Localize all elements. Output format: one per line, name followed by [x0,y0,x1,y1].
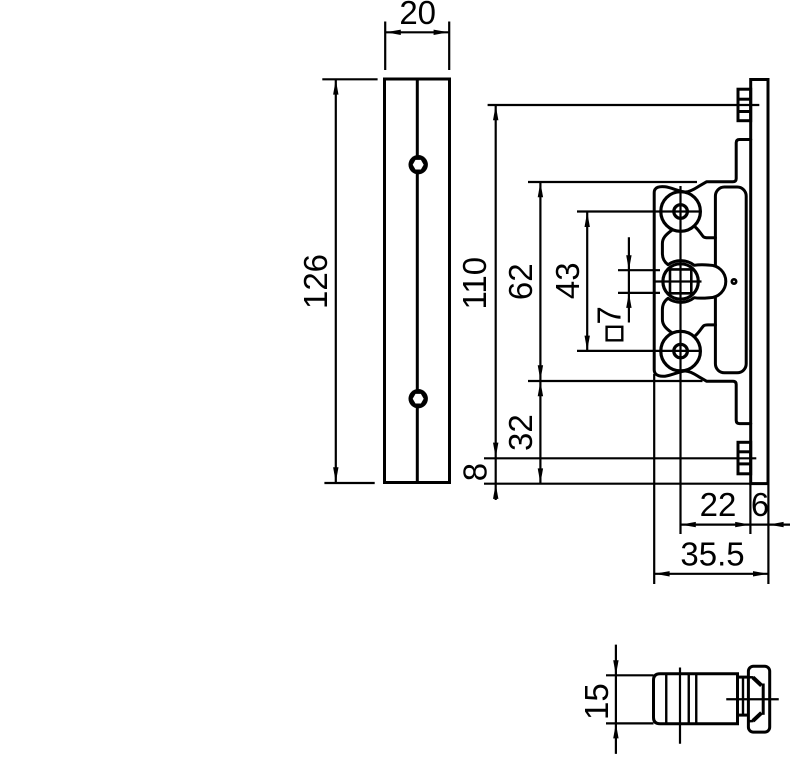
svg-text:20: 20 [399,0,436,31]
svg-text:6: 6 [751,486,769,523]
svg-text:15: 15 [578,683,615,720]
svg-text:35.5: 35.5 [680,536,744,573]
svg-text:126: 126 [297,254,334,309]
svg-text:32: 32 [502,414,539,451]
svg-text:62: 62 [502,263,539,300]
svg-text:110: 110 [456,257,493,310]
svg-text:8: 8 [456,463,493,481]
svg-text:22: 22 [700,486,737,523]
svg-text:7: 7 [591,306,628,324]
svg-text:43: 43 [549,262,586,299]
